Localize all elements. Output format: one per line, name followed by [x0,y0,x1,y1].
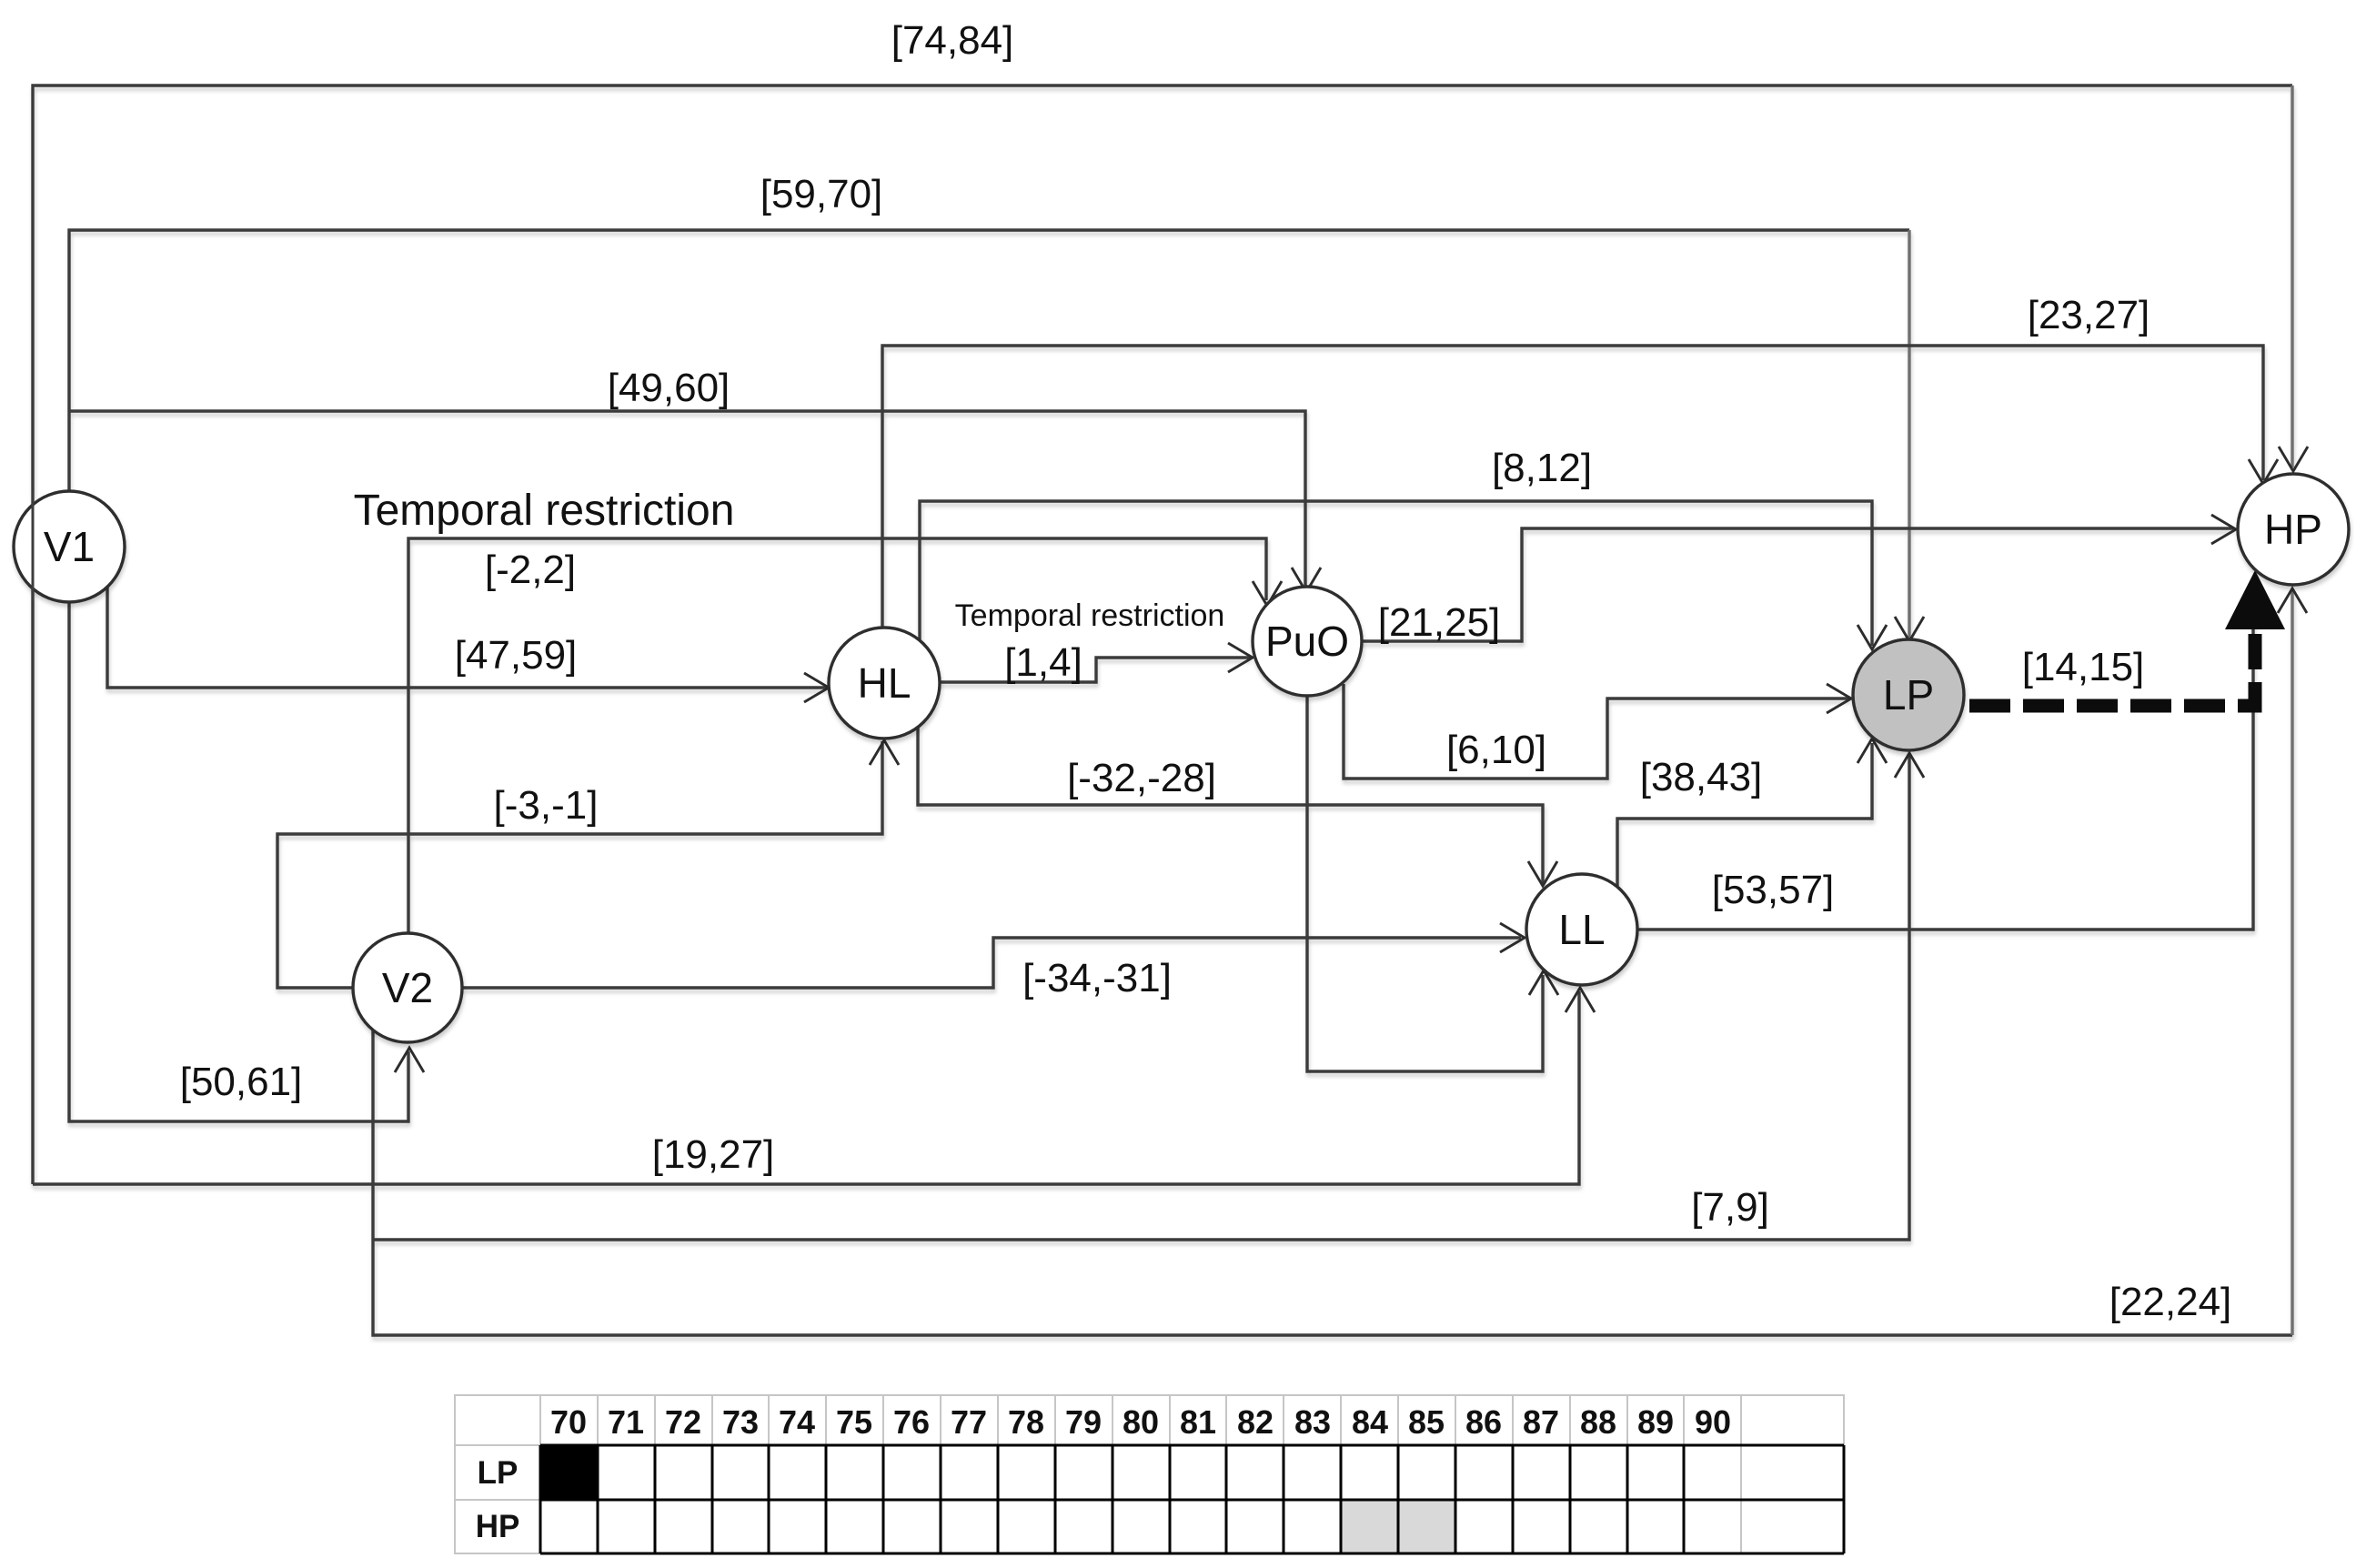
arrow into PuO top-left [1253,581,1282,606]
svg-text:89: 89 [1637,1403,1674,1441]
svg-text:[1,4]: [1,4] [1004,640,1082,685]
arrow into LP top [1895,617,1924,641]
table body grid black [540,1445,1844,1553]
node HL [829,628,940,739]
svg-text:V2: V2 [382,964,433,1011]
svg-text:Temporal restriction: Temporal restriction [955,598,1225,633]
svg-text:85: 85 [1408,1403,1445,1441]
svg-text:[47,59]: [47,59] [455,633,578,678]
svg-text:74: 74 [779,1403,815,1441]
arrow into LL bottom-left [1529,970,1558,995]
arrow into LL left [1500,923,1525,952]
wire [1,4] HL to PuO [939,658,1250,682]
arrow into HP top-left [2249,459,2278,484]
svg-text:[49,60]: [49,60] [608,366,730,410]
wire [14,15] LP to HP thick dashed [1969,634,2255,706]
wire [-34,-31] V2 to LL [462,938,1521,988]
svg-text:70: 70 [550,1403,587,1441]
wire PuO to LL [1307,696,1543,1071]
wire [74,84] V1 to HP outer frame [33,85,2292,1184]
svg-text:[21,25]: [21,25] [1378,600,1501,645]
wire [38,43] LL to LP [1617,743,1872,889]
table header numbers [476,1403,1731,1544]
svg-text:78: 78 [1008,1403,1044,1441]
svg-text:76: 76 [893,1403,930,1441]
svg-text:[22,24]: [22,24] [2109,1280,2232,1324]
edge value labels [180,18,2232,1324]
node LL [1526,874,1637,985]
arrow into LP bottom-left [1858,739,1887,763]
wire [59,70] V1 to LP [69,230,1909,492]
arrow into HP bottom from LL [2239,593,2268,618]
svg-text:80: 80 [1123,1403,1159,1441]
svg-text:[-2,2]: [-2,2] [485,548,576,592]
gray cell HP 85 [1398,1500,1455,1553]
arrow into LP bottom [1895,753,1924,778]
svg-text:HP: HP [2264,506,2322,553]
svg-text:79: 79 [1065,1403,1102,1441]
svg-text:82: 82 [1237,1403,1274,1441]
black filled cell LP 70 [540,1445,598,1500]
svg-text:86: 86 [1465,1403,1502,1441]
arrow into LP left [1827,684,1851,713]
svg-text:83: 83 [1294,1403,1331,1441]
arrow into LP top-left [1858,625,1887,649]
node HP [2238,474,2349,585]
svg-text:81: 81 [1180,1403,1216,1441]
node LP gray [1853,639,1964,750]
svg-text:[8,12]: [8,12] [1492,446,1592,490]
wire [49,60] V1 to PuO [69,411,1305,589]
svg-text:71: 71 [608,1403,644,1441]
node V1 [14,491,125,602]
arrow into HP left [2211,515,2236,544]
arrowhead big solid on [14,15] [2225,570,2285,629]
svg-text:[-32,-28]: [-32,-28] [1067,756,1216,800]
arrow into HP bottom from V2 [2278,588,2307,613]
svg-text:73: 73 [722,1403,759,1441]
svg-text:[50,61]: [50,61] [180,1060,303,1104]
svg-text:Temporal restriction: Temporal restriction [354,487,735,535]
wire [-3,-1] V2 to HL [277,741,882,988]
wire V1 left vertical overlay [32,493,35,601]
table header grid light [455,1395,1844,1553]
node PuO [1253,587,1362,696]
svg-text:[74,84]: [74,84] [891,18,1014,63]
svg-text:90: 90 [1695,1403,1731,1441]
wire [50,61] V1 to V2 [69,601,408,1121]
arrow into HP top [2279,447,2308,471]
svg-text:84: 84 [1352,1403,1388,1441]
svg-text:[59,70]: [59,70] [760,172,883,216]
svg-text:LL: LL [1558,906,1605,953]
svg-text:75: 75 [836,1403,872,1441]
gray cell HP 84 [1341,1500,1398,1553]
svg-text:[-3,-1]: [-3,-1] [494,783,599,828]
svg-text:[6,10]: [6,10] [1446,728,1546,772]
wire [22,24] V2 to HP [373,1028,2292,1335]
svg-text:[23,27]: [23,27] [2028,293,2150,337]
wire temporal [-2,2] V2 to PuO [408,538,1266,933]
arrow into V2 bottom [395,1048,424,1072]
svg-text:88: 88 [1580,1403,1616,1441]
svg-text:HP: HP [476,1509,520,1544]
svg-text:87: 87 [1523,1403,1559,1441]
schedule table [455,1395,1844,1553]
svg-text:LP: LP [478,1455,519,1491]
wire [21,25] PuO to HP [1362,528,2233,641]
wire [-32,-28] HL to LL [918,727,1543,884]
arrow into HL left [804,673,829,702]
node V2 [353,933,462,1042]
svg-text:[7,9]: [7,9] [1691,1185,1769,1230]
arrow into HL bottom [870,740,899,765]
arrow into LL bottom [1566,988,1595,1012]
svg-text:[19,27]: [19,27] [652,1132,775,1177]
node labels [44,506,2322,1011]
svg-text:72: 72 [665,1403,701,1441]
svg-text:[-34,-31]: [-34,-31] [1022,956,1172,1000]
wire [8,12] HL to LP [920,501,1872,646]
wire [47,59] V1 to HL [107,588,826,688]
wire [23,27] HL to HP [882,346,2263,628]
svg-text:77: 77 [951,1403,987,1441]
arrow into PuO left [1228,643,1253,672]
wire [6,10] PuO to LP [1344,684,1849,779]
arrowheads [395,447,2308,1072]
wire [53,57] LL to HP [1636,596,2253,930]
svg-text:[38,43]: [38,43] [1640,755,1763,799]
svg-text:[14,15]: [14,15] [2022,645,2145,689]
arrow into LL top-left [1528,861,1557,886]
svg-text:LP: LP [1883,671,1934,719]
svg-text:HL: HL [858,659,911,707]
svg-text:V1: V1 [44,523,95,570]
svg-text:[53,57]: [53,57] [1712,868,1835,912]
wire [7,9] V2 to LP [373,756,1909,1240]
wire [19,27] V1 to LL [33,991,1579,1184]
arrow into PuO top [1292,568,1321,592]
svg-text:PuO: PuO [1265,618,1349,665]
